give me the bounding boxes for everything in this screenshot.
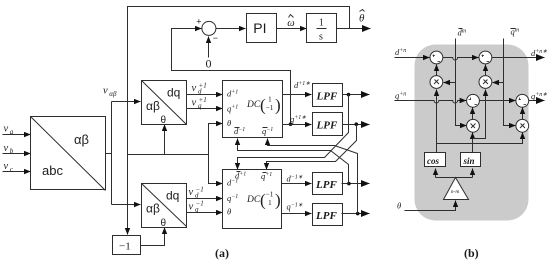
wire LPF4 output xyxy=(342,213,370,215)
svg-text:q−1∗: q−1∗ xyxy=(287,202,303,212)
wire cos riser to M1 xyxy=(436,90,438,153)
wire PI to 1/s, label omega-hat xyxy=(277,28,307,30)
svg-text:θ: θ xyxy=(227,118,231,128)
sum S3 xyxy=(467,94,480,107)
svg-text:dq: dq xyxy=(167,86,180,100)
svg-text:+1: +1 xyxy=(199,96,207,104)
multiplier M3 xyxy=(467,119,480,132)
block dq transform (-1 frame) xyxy=(142,184,187,228)
svg-text:v: v xyxy=(189,201,194,212)
wire dbar-m branch into M1 xyxy=(444,82,456,84)
wire v_alphabeta into top dq xyxy=(112,101,141,103)
svg-text:v: v xyxy=(4,161,9,172)
svg-text:+1: +1 xyxy=(199,81,207,89)
block DC1 decoupling cell xyxy=(223,81,283,138)
input vb xyxy=(3,153,31,155)
svg-text:θ: θ xyxy=(359,13,365,25)
svg-text:θ: θ xyxy=(161,218,167,229)
block LPF1 xyxy=(313,84,343,107)
svg-text:−1: −1 xyxy=(196,200,204,208)
wire M3 to S3 xyxy=(472,108,474,120)
node LPF2 tap dot xyxy=(355,122,359,126)
wire DC2 d-1* to LPF3 xyxy=(282,183,312,185)
block DC2 decoupling cell xyxy=(223,170,282,229)
wire 0 reference into summing junction xyxy=(208,37,210,58)
wire M1 to S1 xyxy=(436,65,438,76)
svg-text:v: v xyxy=(103,86,108,97)
svg-text:−1: −1 xyxy=(119,241,131,253)
svg-text:d+n∗: d+n∗ xyxy=(531,48,547,58)
svg-text:1: 1 xyxy=(319,18,324,29)
wire qbar-m drop into M4 xyxy=(504,39,516,126)
svg-text:+: + xyxy=(196,17,201,27)
sum S2 xyxy=(479,51,492,64)
svg-text:sin: sin xyxy=(463,156,475,166)
wire q+n into sum S3 with hops xyxy=(395,101,467,103)
svg-text:q+n∗: q+n∗ xyxy=(531,91,547,101)
wire vq-1 from dq to DC2 xyxy=(187,212,223,214)
wire theta arrow into top dq block xyxy=(164,125,166,155)
wire DC1 d+1* to LPF1 xyxy=(283,94,312,96)
wire qbar-1 cross feedback from LPF4 into DC1 xyxy=(268,139,358,214)
svg-text:0: 0 xyxy=(206,57,212,71)
wire M4 to S4 xyxy=(522,108,524,120)
svg-text:αβ: αβ xyxy=(146,202,160,216)
gray panel background (b) xyxy=(415,45,529,221)
svg-text:v: v xyxy=(4,124,9,135)
block sin xyxy=(461,153,481,167)
wire v_alphabeta riser xyxy=(111,102,113,205)
wire v_alphabeta into bottom dq xyxy=(112,204,141,206)
svg-text:v: v xyxy=(192,83,197,94)
triangle gain n-m xyxy=(444,178,469,200)
svg-text:v: v xyxy=(4,143,9,154)
svg-text:PI: PI xyxy=(253,20,266,36)
svg-text:c: c xyxy=(10,165,14,173)
wire qbar-m branch into M2 xyxy=(493,82,504,84)
wire LPF3 output xyxy=(342,183,370,185)
wire theta input to triangle xyxy=(405,201,456,211)
svg-text:θ: θ xyxy=(161,115,167,126)
wire sum to PI xyxy=(216,28,246,30)
wire LPF1 output xyxy=(343,94,370,96)
wire DC1 q+1* to LPF2 xyxy=(283,124,312,126)
wire theta-hat output arrow xyxy=(337,28,371,30)
wire dbar+1 cross feedback from LPF1 into DC2 xyxy=(238,95,349,170)
wire dbar-m drop into M3 xyxy=(456,39,467,126)
wire sin branch to M2 xyxy=(473,90,486,139)
input vc xyxy=(3,171,31,173)
wire M2 to S2 xyxy=(485,65,487,76)
svg-text:1: 1 xyxy=(268,198,272,207)
svg-text:): ) xyxy=(275,191,281,210)
svg-text:dq: dq xyxy=(166,189,179,203)
node LPF4 tap dot xyxy=(356,212,360,216)
block LPF2 xyxy=(313,113,343,136)
svg-text:θ: θ xyxy=(227,207,231,217)
wire theta up into DC1 xyxy=(209,124,223,155)
svg-text:n-m: n-m xyxy=(451,189,460,195)
svg-text:cos: cos xyxy=(427,156,439,166)
wire vd+1 from dq to DC1 xyxy=(187,94,223,96)
wire sin riser to M3 xyxy=(472,133,474,153)
node q feedback tap dot xyxy=(289,122,293,126)
wire S4 output q+n* xyxy=(529,100,545,102)
node LPF3 tap dot xyxy=(347,182,351,186)
svg-text:(b): (b) xyxy=(464,246,479,260)
svg-text:αβ: αβ xyxy=(109,90,117,98)
svg-text:αβ: αβ xyxy=(74,132,89,147)
block LPF4 xyxy=(313,204,343,226)
svg-text:ω: ω xyxy=(287,18,294,29)
svg-text:LPF: LPF xyxy=(315,210,337,222)
block dq transform (+1 frame) xyxy=(142,81,187,125)
svg-text:d+n: d+n xyxy=(395,47,406,57)
wire theta down into DC2 d-port row xyxy=(209,155,223,184)
svg-text:v: v xyxy=(189,187,194,198)
wire dbar-1 cross feedback from LPF3 into DC1 xyxy=(238,139,349,184)
block PI controller xyxy=(247,14,277,43)
block LPF3 xyxy=(313,173,343,195)
svg-text:DC: DC xyxy=(246,195,261,205)
wire LPF2 output xyxy=(343,124,370,126)
sum S1 xyxy=(430,51,443,64)
wire vq+1 from dq to DC1 xyxy=(187,108,223,110)
wire q feedback into summing junction xyxy=(172,29,291,125)
svg-text:−1: −1 xyxy=(196,185,204,193)
block cos xyxy=(425,153,446,167)
block -1 gain xyxy=(113,236,141,255)
wire S1 to S2 with hop xyxy=(443,58,479,60)
multiplier M4 xyxy=(516,119,529,132)
block abc->alphabeta transform xyxy=(31,117,106,190)
svg-text:−: − xyxy=(213,33,218,43)
node v_alphabeta output stub xyxy=(106,153,112,155)
svg-text:LPF: LPF xyxy=(316,120,338,132)
wire -1 output to bottom dq theta xyxy=(141,228,165,246)
svg-text:v: v xyxy=(192,98,197,109)
block integrator 1/s xyxy=(307,14,337,43)
wire triangle output junction to cos and sin xyxy=(436,177,473,179)
wire S3 to S4 xyxy=(480,100,516,102)
wire theta distribution line xyxy=(128,154,209,156)
wire vd-1 from dq to DC2 xyxy=(187,198,223,200)
summing junction xyxy=(202,21,216,35)
svg-text:b: b xyxy=(10,147,14,155)
svg-text:αβ: αβ xyxy=(146,99,160,113)
sum S4 xyxy=(516,94,529,107)
multiplier M1 xyxy=(430,76,443,89)
svg-text:): ) xyxy=(275,96,281,115)
svg-text:LPF: LPF xyxy=(316,91,338,103)
svg-text:d+1∗: d+1∗ xyxy=(294,80,310,90)
wire DC2 q-1* to LPF4 xyxy=(282,213,312,215)
wire d+n into sum S1 xyxy=(395,57,430,59)
svg-text:(a): (a) xyxy=(215,246,229,260)
multiplier M2 xyxy=(479,76,492,89)
node LPF1 tap dot xyxy=(347,93,351,97)
svg-text:a: a xyxy=(10,128,14,136)
wire S2 output d+n* xyxy=(492,57,545,59)
svg-text:q+1∗: q+1∗ xyxy=(290,114,306,124)
wire theta feedback rail from 1/s output down-left to -1 block xyxy=(128,7,350,235)
svg-text:d−1∗: d−1∗ xyxy=(287,174,303,184)
input va xyxy=(3,134,31,136)
svg-text:DC: DC xyxy=(246,100,261,110)
svg-text:abc: abc xyxy=(42,163,63,178)
svg-text:θ: θ xyxy=(397,201,401,211)
svg-text:LPF: LPF xyxy=(315,179,337,191)
svg-text:−1: −1 xyxy=(266,103,274,112)
wire qbar+1 cross feedback from LPF2 into DC2 xyxy=(267,125,357,170)
svg-text:s: s xyxy=(319,32,323,43)
svg-text:q+n: q+n xyxy=(395,91,406,101)
wire cos branch to M4 xyxy=(437,133,523,144)
